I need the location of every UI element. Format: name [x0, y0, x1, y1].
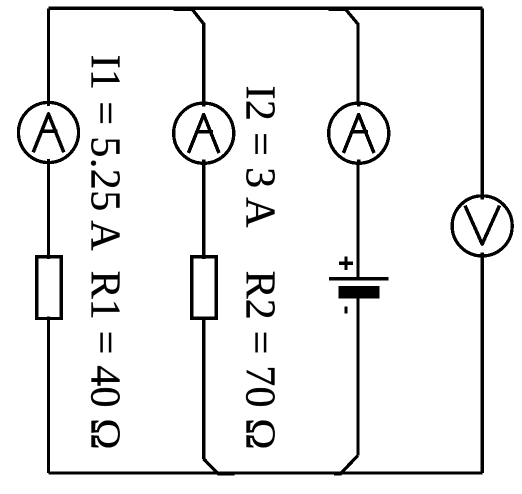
svg-text:I2 = 3 A: I2 = 3 A: [237, 86, 283, 229]
label I1 = 5.25 A: [81, 55, 127, 252]
wire: branch 3 vertical segment: [356, 24, 359, 279]
wire: outer loop right edge (voltmeter branch): [481, 8, 484, 473]
resistor R1: [37, 255, 61, 320]
label R2 = 70 ohm: [237, 271, 283, 450]
wire: branch 3 bottom connection with diagonal: [334, 456, 358, 474]
wire: outer loop bottom edge: [48, 471, 482, 474]
label I2 = 3 A: [237, 86, 283, 229]
battery B1 negative plate: [339, 286, 380, 299]
wire: branch 3 lower vertical segment: [356, 292, 359, 456]
voltmeter V1: [452, 195, 512, 257]
wire: branch 2 top connection with diagonal: [174, 9, 204, 101]
battery plus label: [339, 256, 353, 270]
battery B1 positive plate: [329, 277, 389, 280]
svg-text:R1 = 40 Ω: R1 = 40 Ω: [81, 271, 127, 450]
ammeter A2: [174, 102, 234, 164]
resistor R2: [192, 255, 216, 320]
wire: branch 2 bottom connection with diagonal: [204, 459, 235, 474]
wire: branch 2 vertical segment: [202, 24, 205, 459]
battery minus label: [345, 307, 348, 314]
wire: branch 3 top connection with diagonal: [328, 9, 358, 101]
ammeter A1: [18, 102, 78, 164]
wire: outer loop top edge: [48, 7, 482, 10]
label R1 = 40 ohm: [81, 271, 127, 450]
svg-text:R2 = 70 Ω: R2 = 70 Ω: [237, 271, 283, 450]
wire: outer loop left edge (branch 1): [47, 8, 50, 473]
svg-text:I1 = 5.25 A: I1 = 5.25 A: [81, 55, 127, 252]
ammeter A3: [329, 102, 389, 164]
